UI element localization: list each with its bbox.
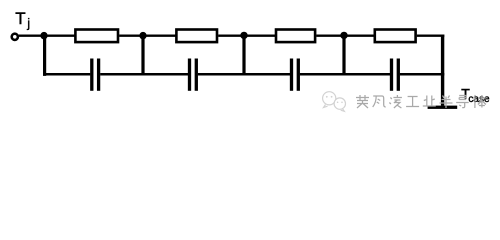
svg-text:T: T [15,9,25,28]
wire C3 to stub4 [300,73,344,76]
watermark text ye [423,96,436,107]
node Tcase label [461,85,490,105]
wire node3 to R3 [244,35,275,37]
capacitor C4 [392,59,399,91]
resistor R1 [75,30,118,43]
terminal Tcase bar [428,106,458,109]
wire R3 to node 4 [316,35,344,37]
watermark text ling [389,95,402,108]
wire R4 to top right corner [417,35,445,37]
node 3 junction [240,32,247,39]
wire Tj to node 1 [19,35,44,37]
wire C4 to right vertical [400,73,444,76]
node 2 junction [139,32,146,39]
node Tj label [15,9,30,31]
watermark text ti [473,95,486,108]
wire node1 to R1 [44,35,75,37]
resistor R3 [276,30,315,43]
wire C2 to stub3 [198,73,244,76]
svg-text:j: j [26,16,30,31]
wire stub node3 down [242,36,245,76]
node 1 junction [40,32,47,39]
resistor R4 [375,30,416,43]
watermark logo [323,92,346,112]
wire bottom rail seg1 to C1 [43,73,90,76]
watermark text fei [373,96,386,107]
wire seg4 to C4 [344,73,390,76]
wire node4 to R4 [344,35,374,37]
wire R2 to node 3 [218,35,244,37]
wire stub node1 down [43,36,46,76]
watermark text gong [406,97,419,107]
node 4 junction [340,32,347,39]
wire R1 to node 2 [119,35,143,37]
terminal Tj [12,34,18,40]
watermark text dao [456,96,469,108]
wire stub node4 down [342,36,345,76]
watermark text ying [356,95,486,108]
watermark text ban [440,96,453,109]
wire right vertical down to Tcase [441,35,444,106]
resistor R2 [176,30,217,43]
wire seg3 to C3 [244,73,290,76]
capacitor C2 [190,59,197,91]
wire node2 to R2 [143,35,176,37]
wire seg2 to C2 [143,73,188,76]
capacitor C3 [292,59,299,91]
wire C1 to stub2 [100,73,143,76]
wire stub node2 down [141,36,144,76]
capacitor C1 [92,59,99,91]
